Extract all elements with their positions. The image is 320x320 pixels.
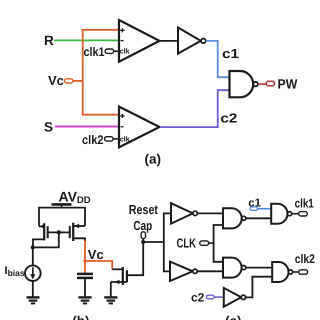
svg-text:clk: clk (120, 47, 130, 56)
node gate junction dot (57, 230, 61, 234)
inverter U3 (178, 28, 206, 54)
ground (Ibias) (27, 297, 40, 303)
wire c2 (purple) U2 output to NAND U4 input B (160, 90, 230, 127)
wire clk2 pad to U2 clk pin (113, 138, 119, 140)
wire Vc to M3 gate (orange then black) (85, 261, 112, 269)
wire U7 out to NAND U9 input B (246, 217, 271, 219)
svg-text:c1: c1 (222, 46, 239, 61)
transistor M2 (PMOS mirror) (70, 223, 85, 242)
wire U8 out to NAND U10 input A (246, 267, 272, 269)
NAND gate U10 (bottom right) (272, 262, 293, 282)
wire CLK pad to bus (209, 242, 214, 244)
svg-text:S: S (44, 119, 53, 134)
pin clk1 connector pad (105, 49, 113, 53)
NAND gate U8 (bottom middle) (223, 258, 246, 278)
ground (M3 source) (104, 297, 117, 303)
svg-text:Vc: Vc (48, 73, 64, 88)
svg-text:PW: PW (278, 77, 298, 92)
node drain junction dot (31, 245, 35, 249)
NAND gate U7 (top middle) (223, 208, 246, 228)
pin c1 connector pad (blue) (250, 207, 257, 211)
wire Cap node to section (c) input bus (143, 241, 164, 243)
svg-text:Cap: Cap (133, 218, 152, 233)
wire Cap pad to node (142, 239, 144, 242)
svg-text:clk2: clk2 (295, 252, 315, 266)
inverter U5 (top) (171, 203, 197, 223)
wire AVDD rail (39, 208, 85, 227)
inverter U6 (bottom) (170, 262, 197, 281)
power AVDD bar symbol (52, 203, 72, 206)
wire U6 out to NAND U8 input B (197, 270, 223, 272)
pin Cap connector pad (vertical) (141, 232, 145, 239)
wire c1 pad to U9 input A (blue) (258, 208, 272, 210)
wire S (magenta) to comparator U2 minus input (55, 126, 119, 128)
capacitor C1 (77, 274, 93, 297)
svg-text:(c): (c) (225, 314, 242, 320)
svg-text:(a): (a) (145, 152, 162, 167)
pin CLK connector pad (200, 241, 209, 245)
pin clk2 connector pad (105, 137, 113, 141)
ground (capacitor) (78, 297, 91, 303)
NAND gate U4 (230, 71, 258, 97)
svg-text:CLK: CLK (177, 235, 197, 250)
svg-text:clk2: clk2 (82, 133, 104, 147)
current source Ibias (5, 247, 41, 296)
wire Vc pad to vertical bus (orange) (73, 80, 83, 82)
wire R (green) to comparator U1 minus input (54, 39, 119, 41)
node Vc junction dot (83, 259, 86, 262)
wire U9 out to clk1 pad (292, 213, 299, 215)
svg-text:clk1: clk1 (84, 45, 105, 59)
wire diode connection (gate to drain) (33, 232, 59, 247)
wire CLK bus (214, 225, 223, 262)
wire gate bus M1-M2 (48, 231, 70, 233)
wire c2 pad to inverter U11 (purple) (214, 296, 224, 298)
wire Vc vertical bus to both comparator plus inputs (orange) (83, 30, 119, 115)
comparator U1 (119, 20, 160, 62)
transistor M3 (NMOS, gate Vc) (111, 242, 143, 296)
wire clk1 pad to U1 clk pin (114, 50, 119, 52)
wire c1 (blue) inverter output to NAND U4 input A (206, 41, 230, 77)
inverter U11 (c2) (224, 288, 246, 307)
svg-text:c2: c2 (220, 111, 237, 126)
wire U10 out to clk2 pad (293, 271, 299, 273)
pin clk2 connector pad (299, 270, 308, 274)
svg-text:(b): (b) (72, 314, 89, 320)
wire input bus vertical (164, 213, 171, 271)
pin clk1 connector pad (299, 212, 308, 216)
svg-text:c2: c2 (191, 291, 205, 305)
wire U4 output to PW pad (red) (258, 83, 266, 85)
comparator U2 (119, 107, 160, 148)
wire U1 output to inverter U3 (160, 40, 179, 42)
pin PW connector pad (266, 81, 274, 86)
wire M2 drain to Vc node (orange) (84, 241, 86, 274)
wire U5 out to NAND U7 input A (197, 212, 223, 214)
pin c2 connector pad (purple) (207, 295, 215, 299)
svg-text:Reset: Reset (129, 202, 159, 217)
NAND gate U9 (top right) (271, 204, 292, 224)
transistor M1 (PMOS, diode-connected) (33, 223, 48, 247)
svg-text:R: R (44, 33, 54, 48)
node Cap junction dot (141, 240, 145, 244)
svg-text:clk: clk (120, 134, 130, 143)
svg-text:clk1: clk1 (295, 196, 314, 210)
wire U11 out to NAND U10 input B (246, 277, 273, 298)
pin Vc connector pad (65, 79, 74, 83)
svg-text:Vc: Vc (88, 247, 104, 262)
